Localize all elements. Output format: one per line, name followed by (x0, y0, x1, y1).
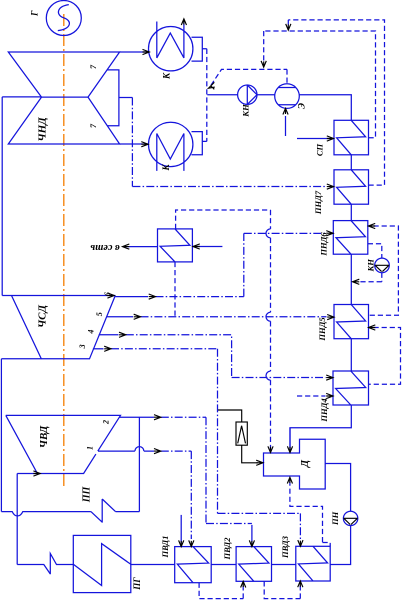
condenser K2 (149, 122, 193, 171)
wire: LPC lower exhaust to K2 (120, 143, 149, 145)
wire: right drain header lower (dashed) (369, 328, 401, 385)
vent cooler (black) (236, 422, 247, 445)
svg-text:ПН: ПН (330, 511, 340, 526)
svg-text:ЧВД: ЧВД (38, 425, 50, 448)
heater PND4 (333, 371, 369, 405)
wire: extraction 5 dash-dot to PND5 (141, 316, 327, 318)
wire: feed line to boiler with break symbol (17, 554, 73, 575)
wire: condensate main from junction to KN pump (207, 94, 237, 96)
wire: HPC inlet bottom-left (17, 473, 37, 475)
wire: extraction 3 header to PVD3 (218, 513, 301, 539)
wire: PN pump down to feed line (330, 526, 350, 565)
wire: network heater steam stub right (192, 246, 222, 248)
wire: extraction 4 from IPC slope (99, 334, 119, 336)
wire: HPC inlet riser from boiler (16, 474, 18, 565)
arrow on HPC inlet edge (33, 471, 40, 476)
wire: PND4 condensate to deaerator (290, 405, 351, 450)
wire: PVD3 to PVD2 feed (272, 564, 296, 566)
wire: PND6 to PND5 condensate (350, 254, 352, 304)
wire: extraction 6 dash-dot to riser (156, 233, 244, 296)
arrow into network heater steam (193, 244, 200, 249)
svg-text:К: К (162, 72, 172, 80)
boiler PG (73, 535, 131, 592)
wire: IPC exhaust down left side (0, 359, 2, 512)
arrow ejector suction junction (209, 82, 215, 89)
arrow black into deaerator (256, 460, 263, 465)
wire: network heater lower drain (dashed) (174, 262, 176, 317)
arrow on extraction 6 (149, 294, 156, 299)
wire: network heater drain to deaerator (dashed, with hops) (176, 210, 271, 450)
wire: deaerator inlet drop (solid) (289, 428, 291, 450)
wire: extraction 3 from IPC slope (93, 348, 104, 350)
wire: extraction 7 header to PND7 (132, 186, 326, 188)
wire: extraction 6 line from IPC (115, 296, 148, 298)
arrow on extraction 2 (154, 415, 161, 420)
arrow into ejector bottom (283, 108, 288, 114)
reheater PP break symbol (91, 499, 116, 523)
arrow seal steam down (inner) (261, 61, 266, 67)
heater SP (334, 120, 369, 155)
wire: deaerator feed out to PN pump (325, 464, 350, 512)
arrow on extraction 5 (134, 314, 141, 319)
svg-text:ПНД4: ПНД4 (319, 398, 329, 422)
arrow on extraction 3 (104, 346, 111, 351)
arrow into PND5 (327, 315, 334, 320)
wire: extraction 2 header from HPC top corner (120, 416, 155, 418)
svg-text:ПНД7: ПНД7 (313, 190, 323, 215)
svg-text:ПНД5: ПНД5 (317, 317, 327, 342)
svg-text:ПНД6: ПНД6 (318, 232, 328, 257)
arrow into PND6 (326, 231, 333, 236)
turbine IPC (ChSD) body (12, 296, 116, 359)
wire: ejector bottom stub (285, 116, 287, 136)
svg-text:5: 5 (95, 312, 104, 316)
turbine HPC (ChVD) body (6, 415, 121, 473)
black pipe: vent cooler to deaerator (242, 445, 258, 463)
arrow into deaerator top (drain) (268, 446, 273, 452)
arrow into PVD1 extraction (189, 540, 194, 546)
ejector E (275, 84, 300, 109)
svg-text:Д: Д (300, 459, 311, 468)
wire: PVD2 to PVD1 feed (211, 564, 236, 566)
heater PVD2 (236, 547, 271, 582)
deaerator D body (264, 439, 326, 489)
svg-text:К: К (161, 164, 171, 172)
wire: PND6 drain loop through pump KN2 (dashed) (358, 244, 382, 282)
arrow into PND7 (327, 184, 334, 189)
wire: crossover down left side (1, 97, 3, 296)
wire: PVD3 drain to deaerator (dashed) (290, 481, 330, 547)
wire: IPC exhaust bottom edge to left (1, 358, 41, 360)
arrow into PND5 right drain (369, 325, 376, 330)
arrow seal steam down (outer) (286, 24, 291, 30)
wire: extraction 2 dash-dot drop (161, 417, 206, 523)
arrow into K2 (141, 142, 148, 147)
svg-text:1: 1 (86, 446, 95, 450)
heater PND6 (333, 221, 368, 255)
svg-text:ПГ: ПГ (132, 577, 142, 591)
svg-text:ПВД2: ПВД2 (222, 537, 232, 561)
svg-text:2: 2 (102, 420, 111, 425)
generator G (46, 1, 81, 36)
wire: right drain header upper (dashed) (370, 226, 399, 315)
svg-text:3: 3 (78, 344, 87, 349)
arrow K1 air vent up (181, 19, 186, 25)
arrow into SP (327, 136, 334, 141)
arrow network water out (123, 244, 130, 249)
arrow on IPC inlet edge (107, 293, 114, 298)
svg-text:4: 4 (87, 330, 96, 335)
wire: seal steam outer loop (dashed) (288, 20, 384, 185)
arrow into PVD3 drain (298, 581, 303, 587)
svg-text:ЧНД: ЧНД (37, 117, 49, 142)
wire: PVD2 steam drop (251, 525, 253, 543)
svg-text:Э: Э (298, 103, 308, 109)
wire: LPC waist inlet to left crossover (2, 96, 41, 98)
arrow into deaerator bottom (287, 477, 292, 483)
wire: reheat line after break (116, 511, 140, 513)
svg-text:в сеть: в сеть (90, 242, 120, 253)
wire: extraction 3 dash-dot drop (111, 349, 218, 514)
arrow on extraction 1 (154, 449, 161, 454)
condensate pump KN (238, 85, 257, 104)
wire: extraction 2 header to PVD2 (206, 523, 252, 525)
black pipe: vent cooler tap (217, 410, 241, 422)
wire: extraction 6 header to PND6 (244, 232, 326, 234)
wire: seal steam inner loop (dashed) (264, 31, 376, 138)
wire: SP to PND7 condensate (350, 155, 352, 170)
wire: PVD1 to boiler feed (131, 564, 175, 566)
wire: LPC upper exhaust to K1 (120, 51, 150, 53)
arrow into PND4 (326, 375, 333, 380)
svg-text:КН: КН (365, 259, 375, 273)
heater PVD1 (175, 547, 212, 583)
drain pump KN2 (375, 258, 390, 273)
wire: extraction 5 from IPC slope (107, 316, 133, 318)
heater PND7 (334, 170, 369, 204)
turbine LPC (ChND) double-flow body (8, 52, 119, 144)
wire: ejector to SP downcomer (299, 95, 351, 121)
wire: PND4 drain stub (dashed) (297, 395, 326, 397)
wire: network water line to the left (125, 246, 158, 248)
svg-text:ПП: ПП (81, 486, 92, 504)
arrow into deaerator top (condensate) (287, 446, 292, 452)
svg-text:Г: Г (30, 10, 40, 17)
condenser K1 air-cooler box (192, 37, 203, 61)
wire: extraction 7 drop (dash-dot) (131, 98, 133, 187)
heater network VSet (158, 229, 193, 262)
wire: ejector suction line (dashed) (211, 69, 287, 85)
heater PND5 (334, 305, 369, 339)
arrow on extraction 4 (119, 332, 126, 337)
wire: extraction 7 from chamber box (119, 97, 132, 99)
wire: cold reheat riser (138, 417, 140, 511)
feed pump PN (343, 511, 357, 525)
arrow into PVD2 extraction (249, 540, 254, 546)
wire: PVD1 drain cascade (dashed) (199, 583, 243, 599)
arrow into PND4 drain stub (326, 393, 333, 398)
hop arcs on drain line (266, 229, 271, 380)
extraction chamber box on LPC (107, 70, 119, 126)
wire: PVD2 drain cascade (dashed) (264, 581, 300, 598)
condenser K2 air-cooler box (192, 132, 203, 155)
wire: extraction 4 header to PND4 (232, 377, 326, 379)
wire: feedwater stub above PVD1 (180, 515, 182, 543)
wire: reheat line with dip under riser and PP break (1, 512, 91, 516)
heater PVD3 (296, 546, 330, 581)
wire: PND7 to PND6 condensate (350, 204, 352, 220)
wire: extraction 4 dash-dot jog (126, 335, 232, 378)
condenser K1 (149, 22, 193, 71)
shaft axis line (orange) (63, 14, 65, 488)
wire: SP steam inlet stub (297, 138, 333, 140)
arrow drain pump outlet into condensate line (353, 279, 360, 284)
wire: KN pump to ejector (257, 94, 275, 96)
arrow into PVD1 steam stub (179, 540, 184, 546)
arrow into PVD3 extraction (298, 540, 303, 546)
arrow into PVD2 drain (241, 581, 246, 587)
svg-text:6: 6 (103, 292, 112, 296)
wire: extraction 1 line with hop over riser (98, 450, 154, 452)
wire: PND5 to PND4 condensate (350, 339, 352, 371)
svg-text:КН: КН (241, 104, 251, 118)
svg-text:СП: СП (314, 143, 324, 156)
svg-text:ЧСД: ЧСД (37, 304, 49, 328)
svg-text:ПВД3: ПВД3 (280, 535, 290, 559)
wire: condensers air suction (dashed) (202, 49, 207, 142)
arrow into K1 (143, 49, 150, 54)
wire: extraction 1 dash-dot to PVD1 (161, 451, 192, 539)
wire: IPC top edge inlet line with arrow gap (2, 295, 115, 297)
svg-text:ПВД1: ПВД1 (160, 536, 170, 559)
arrow into PND6 right drain (368, 223, 375, 228)
